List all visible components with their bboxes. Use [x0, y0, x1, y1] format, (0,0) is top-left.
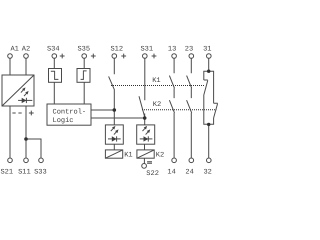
- svg-text:24: 24: [185, 169, 193, 177]
- svg-text:K2: K2: [156, 152, 164, 160]
- svg-text:Logic: Logic: [53, 116, 74, 125]
- svg-text:S21: S21: [0, 169, 13, 177]
- svg-text:S33: S33: [34, 169, 47, 177]
- svg-text:31: 31: [203, 46, 211, 54]
- svg-text:S22: S22: [146, 170, 159, 178]
- svg-text:S11: S11: [18, 169, 31, 177]
- svg-text:K2: K2: [153, 101, 161, 109]
- svg-text:23: 23: [185, 46, 193, 54]
- svg-text:K1: K1: [124, 152, 132, 160]
- svg-text:Control-: Control-: [53, 107, 87, 116]
- svg-text:32: 32: [203, 169, 211, 177]
- svg-text:K1: K1: [152, 77, 160, 85]
- svg-text:S34: S34: [47, 46, 60, 54]
- svg-text:14: 14: [167, 169, 175, 177]
- svg-text:S12: S12: [110, 46, 123, 54]
- svg-text:S31: S31: [140, 46, 153, 54]
- svg-text:S35: S35: [77, 46, 90, 54]
- svg-text:A1: A1: [10, 46, 18, 54]
- svg-text:13: 13: [168, 46, 176, 54]
- svg-text:A2: A2: [22, 46, 30, 54]
